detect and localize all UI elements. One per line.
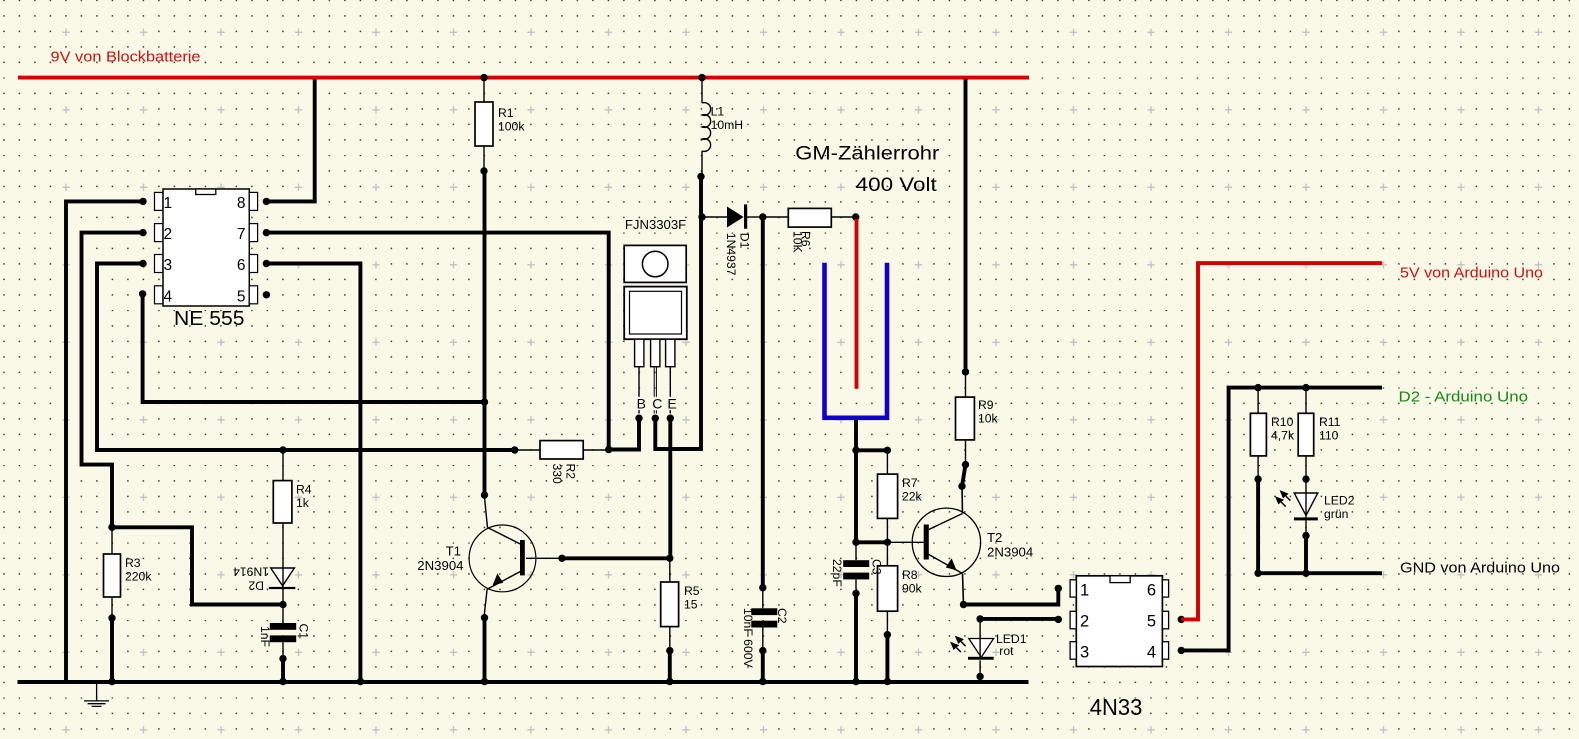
wire C1 bottom to ground bus — [279, 659, 286, 686]
svg-text:D2: D2 — [248, 579, 264, 593]
svg-text:NE 555: NE 555 — [174, 308, 245, 330]
svg-text:C3: C3 — [870, 559, 884, 575]
LED LED1 — [950, 619, 1027, 680]
svg-text:B: B — [637, 395, 646, 411]
svg-text:C: C — [652, 395, 662, 411]
svg-text:2N3904: 2N3904 — [417, 558, 463, 573]
svg-text:2: 2 — [1080, 612, 1089, 630]
wire pin8 to 9V bus — [263, 79, 315, 205]
text D2 label — [1399, 389, 1529, 406]
transistor T2 2N3904 — [912, 508, 1033, 608]
svg-text:5: 5 — [1147, 612, 1156, 630]
svg-text:R5: R5 — [684, 584, 700, 598]
svg-text:8: 8 — [237, 195, 246, 212]
svg-text:9V von Blockbatterie: 9V von Blockbatterie — [51, 49, 201, 66]
svg-text:D2 - Arduino Uno: D2 - Arduino Uno — [1399, 389, 1529, 406]
wire FJN emitter down — [666, 418, 673, 562]
wire FJN base to R2 right — [605, 418, 639, 453]
wire R3 bottom to ground bus — [108, 618, 115, 685]
svg-text:rot: rot — [999, 644, 1014, 658]
svg-text:T1: T1 — [446, 544, 461, 559]
wire R3 node to D2 bottom — [112, 527, 287, 608]
resistor R3 — [104, 524, 153, 622]
capacitor C3 — [830, 542, 884, 597]
text GM tube caption — [795, 144, 940, 197]
resistor R8 — [878, 542, 923, 638]
text 5V label — [1400, 265, 1543, 282]
transistor Q1 FJN3303F — [624, 217, 687, 422]
opto-coupler U2 4N33 — [1070, 576, 1169, 720]
wire 4N33 pin5 to 5V (red) — [1178, 263, 1382, 623]
wire T1 base to FJN emitter — [558, 555, 670, 562]
wire tube node to R7 top — [856, 447, 891, 454]
svg-text:1nF: 1nF — [258, 626, 272, 647]
svg-text:1: 1 — [164, 195, 173, 212]
svg-text:100k: 100k — [498, 120, 525, 134]
svg-text:2: 2 — [164, 226, 173, 243]
resistor R9 — [956, 79, 999, 468]
svg-text:330: 330 — [550, 464, 564, 485]
node pin5 — [263, 291, 270, 298]
inductor L1 — [697, 74, 743, 180]
svg-text:C2: C2 — [775, 608, 789, 624]
svg-text:5V von Arduino Uno: 5V von Arduino Uno — [1400, 265, 1543, 282]
LED LED2 — [1275, 479, 1355, 539]
diode D1 1N4937 — [702, 204, 767, 275]
svg-text:L1: L1 — [711, 105, 725, 119]
wire C3 bottom to ground bus — [852, 593, 859, 685]
svg-text:7: 7 — [237, 226, 246, 243]
resistor R11 — [1298, 388, 1340, 483]
svg-text:R2: R2 — [564, 464, 578, 480]
svg-text:10nF 600V: 10nF 600V — [741, 608, 755, 668]
wire 4N33 pin4 to D2 line — [1178, 384, 1382, 654]
wire L1 bottom to FJN collector — [655, 177, 705, 450]
wire LED2 to GND line — [1302, 536, 1309, 577]
svg-text:22pF: 22pF — [830, 559, 844, 587]
svg-text:FJN3303F: FJN3303F — [625, 217, 686, 232]
resistor R7 — [878, 450, 923, 542]
svg-text:R3: R3 — [125, 556, 141, 570]
wire R5 bottom to ground bus — [666, 651, 673, 686]
wire pin3 to R2 left — [97, 260, 518, 454]
wire R9 to T2 collector — [958, 465, 965, 514]
wire pin2 to R3 top — [82, 229, 147, 527]
svg-text:grün: grün — [1324, 507, 1348, 521]
svg-text:C1: C1 — [297, 624, 311, 640]
resistor R10 — [1250, 388, 1295, 483]
resistor R1 — [475, 74, 525, 175]
svg-text:5: 5 — [237, 288, 246, 305]
GM tube body — [825, 263, 888, 418]
svg-text:D1: D1 — [738, 233, 752, 249]
svg-text:R4: R4 — [296, 483, 312, 497]
wire 9V bus — [18, 76, 1029, 80]
op-amp U1 NE 555 timer IC — [155, 189, 258, 330]
wire GND line — [1258, 571, 1382, 575]
LED1 node wire to 4N33 pin2 — [976, 615, 1062, 623]
svg-text:R8: R8 — [902, 568, 918, 582]
wire R1 bottom to T1 collector — [481, 171, 488, 495]
svg-text:15: 15 — [684, 598, 698, 612]
wire T1 emitter to ground bus — [481, 618, 488, 686]
svg-text:4: 4 — [1147, 643, 1156, 661]
resistor R5 — [661, 558, 700, 654]
wire C2 bottom to ground bus — [759, 651, 766, 686]
svg-text:10mH: 10mH — [711, 118, 744, 132]
wire base node — [852, 539, 923, 546]
wire T2 emitter to 4N33 pin1 — [964, 585, 1063, 605]
svg-text:E: E — [667, 395, 676, 411]
svg-text:1N4937: 1N4937 — [724, 233, 738, 276]
svg-text:R11: R11 — [1319, 415, 1341, 429]
svg-text:2N3904: 2N3904 — [987, 545, 1033, 560]
svg-text:4N33: 4N33 — [1090, 694, 1143, 720]
capacitor C1 — [258, 605, 311, 663]
wire R8 bottom to ground bus — [884, 635, 891, 686]
wire pin6 to ground bus — [263, 260, 361, 682]
svg-text:3: 3 — [164, 257, 173, 274]
wire tube cathode down — [852, 420, 859, 542]
svg-text:22k: 22k — [902, 490, 923, 504]
svg-text:GND von Arduino Uno: GND von Arduino Uno — [1400, 560, 1560, 577]
ground — [84, 684, 109, 706]
svg-text:90k: 90k — [902, 582, 923, 596]
resistor R4 — [273, 446, 312, 568]
wire ground bus — [18, 678, 1029, 685]
transistor T1 2N3904 — [417, 491, 562, 621]
svg-text:LED2: LED2 — [1324, 494, 1355, 508]
wire pin1 to ground bus — [66, 198, 147, 682]
wire GM tube anode (red) — [855, 219, 859, 389]
svg-text:400 Volt: 400 Volt — [856, 175, 938, 196]
text GND label — [1400, 560, 1560, 577]
wire R10 bottom to GND line — [1254, 479, 1261, 577]
svg-text:1k: 1k — [296, 496, 310, 510]
svg-text:R7: R7 — [902, 476, 918, 490]
svg-text:10k: 10k — [978, 412, 999, 426]
wire pin4 to R1 bottom — [139, 290, 485, 402]
svg-text:4: 4 — [164, 288, 173, 305]
svg-text:R10: R10 — [1271, 415, 1294, 429]
svg-text:R1: R1 — [498, 106, 514, 120]
node 9V supply label — [51, 49, 201, 66]
svg-text:6: 6 — [237, 257, 246, 274]
svg-text:110: 110 — [1319, 429, 1339, 443]
svg-text:6: 6 — [1147, 581, 1156, 599]
capacitor C2 — [741, 217, 789, 668]
resistor R2 — [515, 441, 609, 484]
svg-text:3: 3 — [1080, 643, 1089, 661]
svg-text:4,7k: 4,7k — [1271, 429, 1295, 443]
wire pin7 to R2 right — [263, 229, 609, 450]
diode D2 1N914 — [233, 565, 295, 605]
svg-text:R9: R9 — [978, 398, 994, 412]
resistor R6 — [763, 208, 860, 252]
svg-text:T2: T2 — [987, 530, 1002, 545]
svg-text:1N914: 1N914 — [233, 565, 269, 579]
svg-text:10K: 10K — [791, 231, 805, 253]
svg-text:1: 1 — [1080, 581, 1089, 599]
svg-text:GM-Zählerrohr: GM-Zählerrohr — [795, 144, 940, 165]
svg-text:220k: 220k — [125, 570, 152, 584]
